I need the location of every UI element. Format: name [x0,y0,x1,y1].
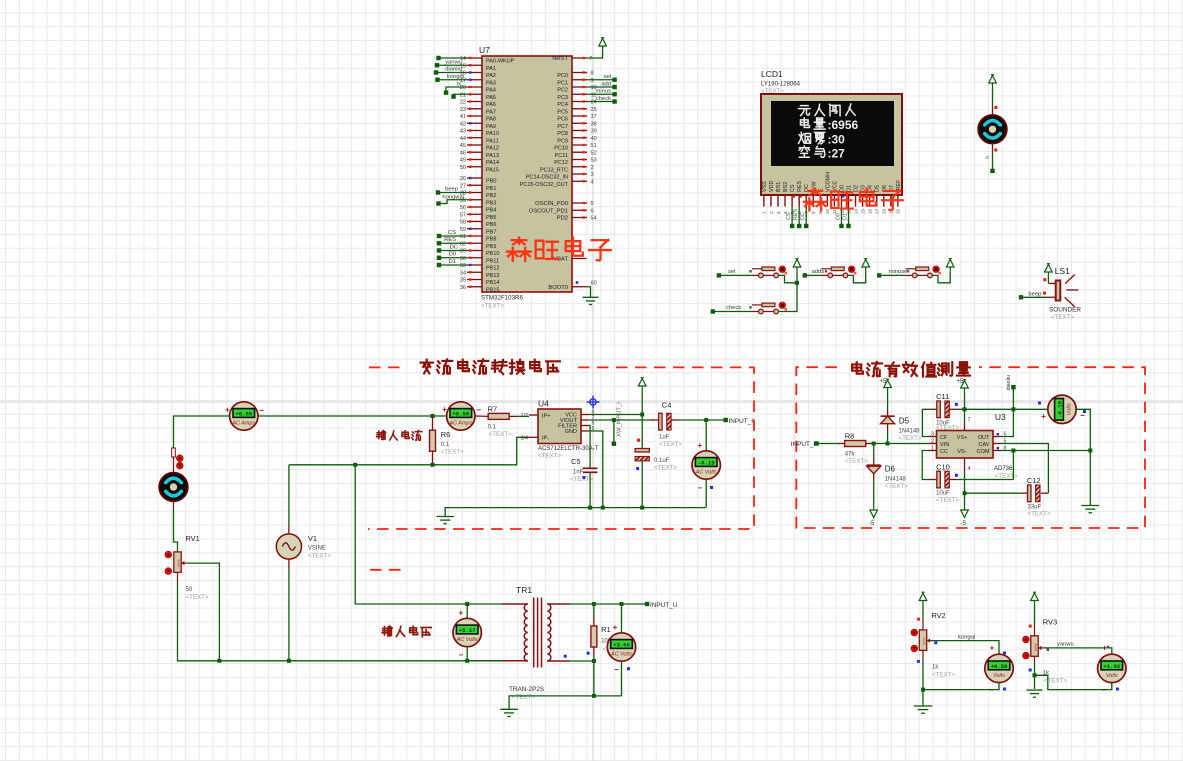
svg-text:57: 57 [460,212,466,218]
svg-text:PC11: PC11 [555,153,568,159]
svg-text:PA0-WKUP: PA0-WKUP [486,59,515,65]
red dot VIOUT [637,439,640,442]
svg-text:30: 30 [460,256,466,262]
svg-text:D1: D1 [449,259,456,265]
svg-text:Volts: Volts [993,673,1005,679]
red state dot [994,106,997,109]
wire CAV to C12 [1001,444,1048,494]
junction VS- C12 rail [963,491,967,495]
wire section1 vertical to TR1 [355,465,502,604]
svg-text:RES: RES [444,237,456,243]
junction VCC [640,413,644,417]
capacitor C5 [583,467,598,469]
svg-text:PB5: PB5 [486,215,496,221]
svg-text:PB6: PB6 [486,222,496,228]
svg-text:62: 62 [460,241,466,247]
wire break to sensor [173,457,175,472]
svg-text:R1: R1 [601,625,611,634]
svg-text:<TEXT>: <TEXT> [885,483,908,490]
svg-text:1N4148: 1N4148 [899,429,921,435]
voltmeter VM3 [692,451,720,479]
junction sel-check pole [795,281,799,285]
section1 ground rail [445,508,706,516]
svg-text:10: 10 [825,208,830,214]
svg-text:-0.15: -0.15 [698,459,715,466]
resistor R8 [838,443,845,445]
svg-text:<TEXT>: <TEXT> [441,449,464,456]
svg-text:GND: GND [565,429,577,435]
svg-text:2: 2 [769,211,774,214]
voltmeter VM6 [1098,654,1126,682]
svg-text:SOUNDER: SOUNDER [1049,307,1081,314]
ground RV2 [914,706,932,713]
svg-text:16: 16 [867,208,872,214]
RV2 adjust buttons [911,629,918,636]
junction VM1 bottom rail [465,659,469,663]
svg-text:50%: 50% [176,559,181,567]
wire PA5 stub [454,94,468,96]
potentiometer RV2 [919,630,926,651]
node yanwu wire [437,64,467,66]
LCD node D0 wire [840,207,842,226]
voltmeter VM2 [621,604,623,633]
stray dashes below section1 [370,569,404,571]
node minus wire [587,93,615,95]
wire NRST to power [587,51,603,58]
svg-text:<TEXT>: <TEXT> [936,425,959,432]
svg-text:50: 50 [186,587,193,593]
wire sel button to power pole [778,275,797,282]
button sel [751,274,758,276]
svg-text:PB13: PB13 [486,273,499,279]
svg-text:10uF: 10uF [936,491,950,497]
svg-text:VCC: VCC [832,181,838,192]
svg-text:PA12: PA12 [486,146,499,152]
svg-text:AC Amps: AC Amps [449,421,473,427]
svg-text:<TEXT>: <TEXT> [489,431,512,438]
svg-text:add: add [601,81,611,87]
svg-text:−: − [614,665,619,674]
sounder LS1 body [1056,281,1061,301]
svg-text:4: 4 [968,466,971,472]
svg-text:CS: CS [448,230,456,236]
svg-text:50: 50 [460,165,466,171]
sensor bottom lead [992,144,994,151]
svg-text:+: + [458,609,463,618]
svg-text:PB8: PB8 [486,237,496,243]
power terminal adds [862,259,870,272]
svg-text:2: 2 [591,165,594,171]
U3 VS+ pin stub [964,422,966,431]
wire CF to C11 [922,409,930,436]
potentiometer RV1 [174,552,181,573]
junction VM3 top [704,418,708,422]
ground section1 [436,517,454,524]
svg-text:+5.17: +5.17 [459,627,476,634]
svg-text:yanwu: yanwu [445,59,462,65]
svg-text:15: 15 [860,208,865,214]
svg-text:33: 33 [460,263,466,269]
section2 dashed border [796,367,1145,528]
node XW INPUT_I terminal [612,442,616,446]
wire top rail left [174,416,230,448]
ground TR1 circuit [500,709,518,716]
svg-text:C10: C10 [936,462,950,471]
junction RV3 return [1033,673,1037,677]
svg-text:NRST: NRST [552,56,568,62]
svg-text:51: 51 [591,143,597,149]
wire power vertical [641,391,643,449]
svg-text:8: 8 [811,211,816,214]
wire VM2 bottom to ground [509,696,621,709]
svg-text:PB1: PB1 [486,186,496,192]
svg-text:TR1: TR1 [516,585,532,595]
svg-text:DC: DC [450,244,458,250]
ammeter AM1 [230,402,258,430]
svg-text:PA3: PA3 [486,80,496,86]
svg-text:25: 25 [591,107,597,113]
svg-text:44: 44 [460,136,466,142]
svg-text:RES: RES [793,209,799,220]
svg-text:56: 56 [460,205,466,211]
capacitor 0.1uF plates [635,449,649,453]
LCD text line2 dian liang 6956 [800,118,809,128]
terminal below sensor [990,169,994,173]
LCD text line1 wu ren chuang ru [799,106,810,116]
svg-text:PC5: PC5 [557,109,568,115]
wire AM1 to AM2 [258,415,447,417]
wire OUT to riser [1001,409,1013,436]
svg-text:RV1: RV1 [185,534,199,543]
wire GND pin down [589,431,603,508]
TR1 core [533,598,535,668]
svg-text:1/2: 1/2 [521,413,529,419]
svg-text:PB0: PB0 [486,179,496,185]
junction V1 branch [353,463,357,467]
wire RV2 bottom [922,650,924,659]
svg-text:INPUT_U: INPUT_U [650,602,678,609]
wire power to sensor [992,88,994,108]
svg-text:4: 4 [591,179,594,185]
node tx wire [446,87,467,92]
junction R6 top [431,414,435,418]
wire minuse [881,274,905,276]
svg-text:<TEXT>: <TEXT> [1028,511,1051,518]
wire adds button to power [848,272,866,283]
svg-text:23: 23 [460,107,466,113]
svg-text:8: 8 [591,71,594,77]
svg-text:<TEXT>: <TEXT> [481,303,504,310]
node DC wire [439,250,467,252]
svg-text:17: 17 [875,208,880,214]
negative supply -5 below U3 [961,505,969,518]
svg-text:CS: CS [790,184,796,192]
button minuse [905,274,912,276]
junction COM meter return [1088,449,1092,453]
svg-text:D0: D0 [449,252,456,258]
svg-text:26: 26 [460,176,466,182]
node check terminal [711,309,715,313]
svg-text:+: + [613,623,618,632]
svg-text:<TEXT>: <TEXT> [899,435,922,442]
svg-text:dianliu: dianliu [445,67,462,73]
wire C5 to rail [589,472,591,507]
node hongwai wire [439,200,468,204]
svg-text:+0.55: +0.55 [452,410,469,417]
section1 dashed border [369,366,406,368]
wire VIOUT run [589,419,650,421]
svg-text:VS+: VS+ [957,435,968,441]
wire sel [721,274,751,276]
svg-text:BS1: BS1 [776,182,782,192]
wire power to RV2 [922,606,924,620]
svg-text:20: 20 [896,208,901,214]
svg-text:1uF: 1uF [659,435,670,441]
svg-text:PC0: PC0 [557,73,568,79]
svg-text:35: 35 [460,278,466,284]
LCD display LY190-128064 frame [761,94,902,195]
svg-text:59: 59 [460,227,466,233]
junctions on rail [588,506,592,510]
wire check [715,311,751,313]
RV1 adjust buttons [165,551,172,558]
svg-text:PB3: PB3 [486,200,496,206]
svg-text:<TEXT>: <TEXT> [659,441,682,448]
node beep wire [438,192,467,194]
junction R1 top [592,602,596,606]
svg-text:PA13: PA13 [486,153,499,159]
resistor R7 [475,415,488,417]
capacitor C12 [1028,485,1032,502]
svg-text:adds: adds [812,269,825,275]
svg-text:46: 46 [460,150,466,156]
power +5 above D5 [884,379,892,392]
svg-text:OSCIN_PD0: OSCIN_PD0 [535,201,568,207]
svg-text:PA8: PA8 [486,117,496,123]
svg-text:+1.02: +1.02 [1103,663,1120,670]
wire R7 to U4 [518,415,529,417]
wire adds [807,274,821,276]
svg-text:<TEXT>: <TEXT> [1051,314,1074,321]
svg-text:RES: RES [797,181,803,192]
node CS wire [439,235,467,237]
svg-text::6956: :6956 [828,118,859,132]
section2 title dian liu you xiao zhi ce liang [852,362,863,373]
node dianliu wire [436,72,467,74]
svg-text:PC4: PC4 [557,102,568,108]
U4 pin IP- stub [528,436,538,438]
svg-text:minus: minus [596,89,612,95]
wire C10 right to riser [949,479,956,481]
svg-text:COM: COM [976,449,989,455]
svg-text:AC Volts: AC Volts [456,637,478,643]
svg-text:-5: -5 [869,521,875,527]
svg-text:<TEXT>: <TEXT> [936,497,959,504]
svg-text:53: 53 [591,158,597,164]
LCD node CS wire [791,207,793,226]
svg-text:−: − [1080,411,1085,420]
svg-text:18: 18 [882,208,887,214]
svg-text:AC Volts: AC Volts [695,470,717,476]
wire R8 to VIN [874,443,929,445]
svg-text:PC10: PC10 [554,146,568,152]
TR1 leads [502,603,528,605]
svg-text:7: 7 [589,56,592,62]
wire INPUT_I to R8 [819,443,838,445]
svg-text:9: 9 [591,78,594,84]
svg-text:check: check [726,305,741,311]
wire VM3 top [705,420,707,451]
wire VM4 right down [1076,409,1090,450]
negative supply -5 below D6 [870,505,878,518]
svg-text:D0: D0 [839,185,845,192]
LCD text line3 yan wu 30 [799,132,811,143]
node adds terminal [803,273,807,277]
svg-text:−: − [697,484,702,493]
power terminal sel/check [796,272,798,283]
sine source V1 [276,534,301,559]
junction COM riser [1011,449,1015,453]
resistor R6 [432,416,434,430]
wire primary bottom [467,660,503,662]
svg-text:PA10: PA10 [486,131,499,137]
svg-text:6: 6 [591,208,594,214]
svg-text:42: 42 [460,121,466,127]
U7 right pin NRST [572,57,587,59]
label shu ru dian ya (input voltage) [382,626,392,636]
svg-text:D0: D0 [835,213,841,220]
ground section2 [1082,506,1100,513]
svg-text:BS2: BS2 [783,182,789,192]
svg-text:36: 36 [460,285,466,291]
power terminal at NRST [599,38,607,51]
svg-text:+0.50: +0.50 [991,663,1008,670]
svg-text:check: check [596,96,611,102]
svg-text:AC Amps: AC Amps [232,421,256,427]
state dots near 0.1uF [637,439,640,442]
svg-text:C5: C5 [571,457,581,466]
svg-text::30: :30 [828,132,846,146]
svg-text:yanwu: yanwu [1057,642,1074,648]
svg-text:dianliu: dianliu [1006,375,1012,391]
svg-text:PA15: PA15 [486,167,499,173]
node RES wire [439,242,467,244]
node sel wire [587,79,615,81]
svg-text:PC14-OSC32_IN: PC14-OSC32_IN [526,175,568,181]
svg-text:34: 34 [460,270,466,276]
svg-text:PC6: PC6 [557,117,568,123]
svg-text:VSINE: VSINE [308,546,326,552]
origin marker [587,396,600,409]
svg-text:+5: +5 [880,379,888,385]
svg-text:PB2: PB2 [486,193,496,199]
watermark sen wang dian zi on LCD [804,188,827,210]
svg-text:1: 1 [931,445,934,451]
svg-text:CF: CF [940,435,948,441]
wire secondary bottom [570,660,594,662]
svg-text:PC13_RTC: PC13_RTC [540,167,568,173]
svg-text:R8: R8 [845,432,855,441]
junction OUT riser [1011,407,1015,411]
LCD node RES wire [798,207,800,226]
power terminal RV3 [1031,592,1039,605]
svg-text:D1: D1 [847,185,853,192]
svg-text:−: − [259,406,264,415]
svg-text:LS1: LS1 [1055,266,1070,276]
svg-text:+: + [990,644,995,653]
node add wire [587,86,615,88]
svg-text:40: 40 [591,136,597,142]
origin axes [592,0,594,761]
svg-text:2: 2 [931,438,934,444]
wire minuse button to power [932,272,950,283]
junction V1 bottom rail [287,659,291,663]
svg-text:PC7: PC7 [557,124,568,130]
svg-text:PC3: PC3 [557,95,568,101]
svg-text:1nF: 1nF [573,470,584,476]
U4 right pin stubs [581,414,589,416]
svg-text:+: + [697,441,702,450]
svg-text:PB10: PB10 [486,251,499,257]
svg-text:CC: CC [940,449,948,455]
svg-text:7: 7 [968,417,971,423]
wire V1 top [288,465,290,525]
RV3 adjust buttons [1023,636,1030,643]
svg-text:AD736: AD736 [994,466,1013,472]
svg-text:41: 41 [460,114,466,120]
svg-text:U4: U4 [538,399,549,409]
node minuse terminal [877,273,881,277]
svg-text:PC8: PC8 [557,131,568,137]
wire FILTER to C5 [589,426,590,469]
svg-text:Volts: Volts [1067,403,1073,415]
svg-text:PA7: PA7 [486,109,496,115]
junction secondary bottom [592,659,596,663]
svg-text:+: + [1041,412,1046,421]
svg-text:39: 39 [591,129,597,135]
LCD screen [771,101,894,166]
svg-text:3: 3 [776,211,781,214]
svg-text:1: 1 [762,211,767,214]
svg-text:hongwai: hongwai [442,194,464,200]
node kongqi wire RV2 [932,641,999,654]
wire RV1 bottom [177,572,179,583]
wire 0.1uF to rail [641,461,643,508]
junction wiper rail [217,659,221,663]
svg-text:U7: U7 [479,45,490,55]
node PA0 wire [439,57,468,59]
wire check button to pole [778,283,797,312]
svg-text:54: 54 [591,216,597,222]
svg-text:PB15: PB15 [486,287,499,293]
svg-text:-5: -5 [961,521,967,527]
power terminal above top-right sensor [989,75,997,88]
svg-text:kongqi: kongqi [958,634,975,640]
svg-text:22: 22 [460,100,466,106]
svg-text:sel: sel [728,269,735,275]
wire bottom rail [178,583,522,661]
junction R1 bottom [592,694,596,698]
svg-text:+: + [225,406,230,415]
svg-text:+: + [442,405,447,414]
svg-text:D2: D2 [854,185,860,192]
svg-text:37: 37 [591,114,597,120]
svg-text:OUT: OUT [978,435,990,441]
svg-text:PA4: PA4 [486,88,496,94]
ammeter AM2 [447,402,475,430]
svg-text:PA6: PA6 [486,102,496,108]
section1 title jiao liu dian liu zhuan huan dian ya [420,360,432,374]
